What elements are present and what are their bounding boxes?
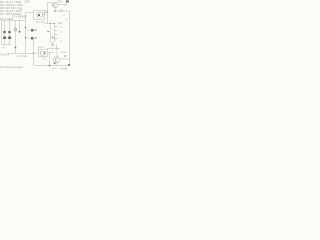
node G — [49, 65, 51, 67]
svg-text:Th1: Th1 — [44, 12, 49, 14]
wire stub — [43, 57, 45, 60]
svg-text:30 V: 30 V — [58, 23, 63, 25]
svg-text:+: + — [66, 18, 68, 21]
bus 0V left — [8, 53, 34, 55]
wire — [48, 53, 50, 66]
tap tick 3 — [55, 34, 58, 36]
tap tick 2 — [55, 30, 58, 32]
svg-text:s1: s1 — [63, 15, 66, 17]
svg-text:≙ 0,3A: ≙ 0,3A — [60, 68, 68, 71]
capacitor C3 — [31, 37, 34, 40]
svg-text:R3 = 4k7 C3 = 0,1μ: R3 = 4k7 C3 = 0,1μ — [0, 7, 22, 10]
wire — [34, 40, 36, 66]
svg-text:0,1: 0,1 — [44, 59, 48, 61]
wire — [58, 4, 65, 6]
bus base — [45, 23, 55, 25]
svg-text:BC107: BC107 — [52, 68, 59, 70]
wire — [52, 48, 54, 49]
wire — [50, 52, 54, 54]
node J — [54, 23, 55, 24]
svg-text:2 x 5 mA: 2 x 5 mA — [18, 55, 28, 58]
wire — [55, 10, 70, 12]
node D — [19, 31, 21, 33]
svg-text:50: 50 — [52, 45, 55, 47]
svg-text:30 V: 30 V — [58, 2, 63, 4]
svg-text:a b: a b — [20, 9, 24, 11]
wire — [45, 12, 48, 14]
wire zener chain left — [50, 24, 52, 42]
node A — [54, 10, 56, 12]
svg-text:4 x 10 V: 4 x 10 V — [1, 54, 10, 57]
tap tick 4 — [55, 38, 58, 40]
wire branch C1 — [15, 21, 17, 54]
node F — [33, 53, 35, 55]
zener Z2 arrow — [52, 37, 54, 39]
svg-text:R2 = 220 C2 = 100μ: R2 = 220 C2 = 100μ — [0, 4, 23, 7]
label plus mark — [66, 1, 69, 3]
transistor T1 — [52, 2, 58, 8]
wire — [52, 44, 54, 45]
wire — [26, 37, 31, 39]
svg-text:BD130: BD130 — [61, 52, 68, 54]
wire — [43, 14, 45, 16]
regulator inner symbol — [41, 52, 46, 56]
diode D3 — [3, 37, 6, 40]
meter M1 — [60, 9, 63, 12]
svg-text:Die einfache geregelte: Die einfache geregelte — [1, 66, 24, 69]
diode D4 — [8, 37, 11, 40]
zener Z1 arrow — [48, 31, 50, 33]
tap tick 1 — [55, 26, 58, 28]
node B — [25, 27, 27, 29]
node I — [50, 23, 51, 24]
wire — [48, 2, 53, 4]
wire zener chain right — [54, 24, 56, 42]
wire emitter to bus — [55, 63, 57, 66]
wire branch D2 — [9, 21, 11, 45]
svg-text:10: 10 — [60, 27, 63, 29]
relay inner dot — [38, 14, 40, 16]
wire — [34, 52, 39, 54]
bus regulator — [47, 48, 61, 50]
wire — [25, 13, 27, 54]
svg-text:B40 C: B40 C — [2, 47, 8, 49]
relay box K1 — [34, 11, 45, 20]
wire — [51, 42, 55, 44]
svg-text:μA741: μA741 — [38, 46, 45, 49]
wire — [54, 8, 56, 11]
transistor T2 — [53, 57, 60, 64]
relay coil symbol — [37, 13, 43, 18]
diode D2 — [8, 31, 11, 33]
wire — [47, 3, 49, 24]
wire branch R1 — [19, 21, 21, 32]
wire — [56, 49, 58, 57]
node H — [68, 64, 70, 66]
node L — [64, 55, 66, 57]
regulator box U1 — [39, 50, 48, 57]
rectifier box left edge — [1, 21, 3, 45]
wire branch D1 — [4, 21, 6, 45]
svg-text:1k: 1k — [60, 41, 62, 43]
terminal +30V — [65, 4, 67, 6]
svg-text:220V: 220V — [24, 1, 30, 3]
bus bottom of rectifier — [2, 44, 12, 46]
diode D1 — [3, 31, 6, 33]
bus top of rectifier — [2, 20, 27, 22]
transistor T2 emitter arrow — [53, 62, 56, 64]
wire — [60, 58, 70, 60]
svg-text:T2 = 2N3055: T2 = 2N3055 — [12, 16, 27, 19]
wire — [26, 12, 34, 14]
bus 0V bottom — [35, 65, 70, 67]
capacitor C2 — [31, 29, 34, 32]
wire — [26, 29, 31, 31]
node K — [44, 52, 46, 54]
svg-text:D1-4 = B40: D1-4 = B40 — [0, 18, 13, 21]
node E — [15, 47, 17, 49]
svg-text:R1 = 1k C1 = 5000: R1 = 1k C1 = 5000 — [0, 1, 22, 4]
wire — [56, 44, 58, 49]
svg-text:R4 = 1k D1 = ZF30: R4 = 1k D1 = ZF30 — [0, 10, 22, 13]
capacitor C1 plates — [14, 28, 16, 31]
node C — [25, 37, 27, 39]
svg-text:20: 20 — [60, 32, 63, 34]
wire — [69, 11, 71, 65]
svg-text:Rel. 12V: Rel. 12V — [36, 22, 45, 24]
